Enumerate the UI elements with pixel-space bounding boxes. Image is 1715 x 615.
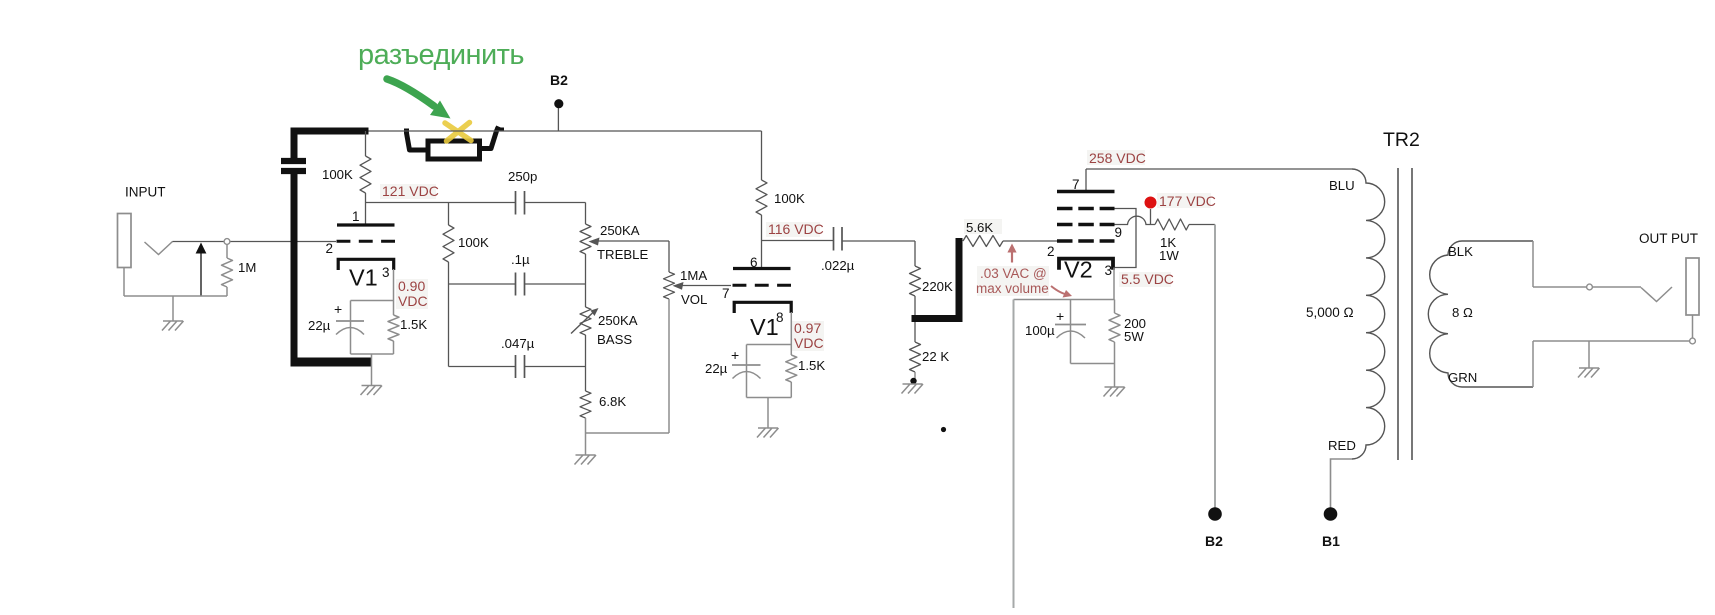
input jack J1 body bbox=[118, 214, 132, 268]
capacitor .047u bbox=[516, 355, 525, 378]
wire thick mod divider horizontal bbox=[912, 315, 963, 322]
wire V1b cathode lead bbox=[790, 312, 792, 345]
label 5.6K bbox=[964, 219, 1002, 234]
svg-text:250KA: 250KA bbox=[598, 313, 638, 328]
svg-text:BLK: BLK bbox=[1448, 244, 1473, 259]
node divider ground junction bbox=[910, 378, 916, 384]
svg-text:5W: 5W bbox=[1124, 329, 1144, 344]
wire volume bottom rail bbox=[668, 299, 670, 433]
wire .047u to rail bbox=[525, 366, 586, 368]
svg-text:GRN: GRN bbox=[1448, 370, 1477, 385]
svg-text:B1: B1 bbox=[1322, 533, 1340, 549]
svg-text:1MA: 1MA bbox=[680, 268, 707, 283]
svg-text:1.5K: 1.5K bbox=[798, 358, 825, 373]
wire input signal to V1 grid bbox=[173, 241, 337, 243]
svg-text:1.5K: 1.5K bbox=[400, 317, 427, 332]
capacitor 250p bbox=[516, 191, 525, 215]
svg-text:VDC: VDC bbox=[398, 293, 428, 309]
arrow treble wiper bbox=[589, 238, 600, 246]
wire treble wiper bbox=[597, 240, 669, 242]
wire ground stem V1b bbox=[767, 398, 769, 429]
svg-text:121 VDC: 121 VDC bbox=[382, 183, 439, 199]
output jack tip contact bbox=[1641, 287, 1672, 302]
svg-text:100K: 100K bbox=[458, 235, 489, 250]
wire V1a cathode lead bbox=[393, 269, 395, 301]
svg-text:22µ: 22µ bbox=[308, 318, 331, 333]
label 116 VDC bbox=[766, 222, 820, 237]
ground V2 cathode bbox=[1104, 387, 1126, 397]
capacitor thick mod top plate bbox=[281, 158, 306, 164]
svg-text:OUT PUT: OUT PUT bbox=[1639, 231, 1698, 246]
svg-text:B2: B2 bbox=[550, 72, 568, 88]
wire plate node to tone stack bbox=[366, 202, 516, 204]
node B2 terminal bottom bbox=[1208, 507, 1222, 521]
svg-text:5.5 VDC: 5.5 VDC bbox=[1121, 271, 1174, 287]
wire ground stem input bbox=[172, 296, 174, 321]
pentode V2 screen dashed bbox=[1057, 223, 1115, 227]
svg-text:250p: 250p bbox=[508, 169, 537, 184]
svg-text:V2: V2 bbox=[1064, 257, 1093, 283]
ground V1a cathode bbox=[361, 386, 383, 396]
wire tone bottom bus bbox=[586, 432, 670, 434]
wire thick mod vertical upper segment bbox=[291, 128, 298, 159]
wire bass to 6.8K rail bbox=[585, 335, 587, 391]
transformer core line left bbox=[1397, 168, 1399, 460]
svg-text:177 VDC: 177 VDC bbox=[1159, 193, 1216, 209]
svg-text:max volume: max volume bbox=[976, 281, 1049, 296]
capacitor .022u bbox=[834, 227, 843, 251]
wire B2 rail vertical bbox=[1214, 225, 1216, 508]
wire 1M resistor top lead bbox=[226, 244, 228, 258]
svg-text:+: + bbox=[334, 301, 342, 317]
wire 1M bottom lead bbox=[226, 287, 228, 296]
svg-text:3: 3 bbox=[382, 265, 390, 280]
wire thick mod vertical lower segment bbox=[291, 174, 298, 366]
annotation yellow X mark bbox=[445, 123, 471, 142]
annotation right lead nub bbox=[495, 128, 504, 132]
svg-text:V1: V1 bbox=[349, 265, 378, 291]
svg-text:0.90: 0.90 bbox=[398, 278, 425, 294]
transformer TR2 secondary winding bbox=[1428, 241, 1533, 387]
svg-text:2: 2 bbox=[326, 241, 334, 256]
wire V2 cathode lead bbox=[1113, 268, 1115, 300]
ground output bbox=[1578, 368, 1600, 378]
svg-text:B2: B2 bbox=[1205, 533, 1223, 549]
svg-text:.047µ: .047µ bbox=[501, 336, 535, 351]
svg-text:5,000 Ω: 5,000 Ω bbox=[1306, 305, 1354, 320]
wire ground stem V2 bbox=[1114, 364, 1116, 388]
svg-text:1W: 1W bbox=[1159, 248, 1179, 263]
pentode V2 suppressor dashed bbox=[1057, 207, 1115, 211]
svg-text:220K: 220K bbox=[922, 279, 953, 294]
svg-text:+: + bbox=[731, 347, 739, 363]
wire BLK secondary riser bbox=[1532, 241, 1534, 287]
component lifted disconnected resistor body bbox=[428, 141, 480, 159]
resistor 1.5K V1a bbox=[388, 315, 399, 341]
capacitor 22u V1a curved plate bbox=[336, 328, 364, 335]
wire B2 stem bbox=[557, 108, 559, 131]
wire ground stem output bbox=[1588, 341, 1590, 368]
svg-text:8 Ω: 8 Ω bbox=[1452, 305, 1473, 320]
arrow marker at input wire bbox=[200, 253, 202, 296]
svg-text:5.6K: 5.6K bbox=[966, 220, 993, 235]
wire cathode bottom bus V1a bbox=[351, 353, 394, 355]
wire 6.8K bottom lead bbox=[585, 418, 587, 433]
wire jack sleeve lead bbox=[123, 268, 125, 297]
capacitor 100u plate bbox=[1055, 324, 1086, 326]
wire 100u lead bbox=[1070, 300, 1072, 364]
svg-text:22 K: 22 K bbox=[922, 349, 949, 364]
resistor 100K V1b plate bbox=[756, 180, 767, 215]
resistor 1K screen bbox=[1155, 219, 1189, 230]
wire ground stem tone bbox=[585, 433, 587, 455]
svg-text:250KA: 250KA bbox=[600, 223, 640, 238]
pentode V2 plate bbox=[1057, 190, 1115, 194]
label 121 VDC bbox=[380, 184, 436, 199]
wire 5.6K to V2 grid bbox=[1003, 240, 1057, 242]
svg-text:разъединить: разъединить bbox=[358, 39, 524, 71]
svg-text:22µ: 22µ bbox=[705, 361, 728, 376]
wire 1.5K leads V1b bbox=[790, 345, 792, 398]
node output jack tip junction bbox=[1587, 284, 1593, 290]
svg-text:1M: 1M bbox=[238, 260, 256, 275]
label 0.97 VDC bbox=[792, 321, 824, 351]
svg-text:RED: RED bbox=[1328, 438, 1356, 453]
wire 22K bottom lead bbox=[914, 372, 916, 382]
wire 1K to B2 rail bbox=[1189, 224, 1215, 226]
node red measurement dot 177VDC bbox=[1145, 197, 1157, 209]
pentode V2 grid dashed bbox=[1057, 239, 1115, 243]
wire thick mod bottom horizontal bbox=[291, 358, 373, 367]
svg-text:100µ: 100µ bbox=[1025, 323, 1055, 338]
wire 200 bottom lead bbox=[1114, 342, 1116, 364]
ground tone stack bbox=[575, 455, 597, 465]
wire treble wiper down to volume bbox=[668, 241, 670, 272]
label 177 VDC bbox=[1157, 193, 1211, 208]
node output sleeve junction bbox=[1690, 338, 1696, 344]
resistor 5.6K bbox=[963, 236, 1003, 247]
svg-text:9: 9 bbox=[1115, 225, 1123, 240]
node B2 terminal top bbox=[554, 99, 563, 108]
wire 1.5K leads V1a bbox=[393, 301, 395, 355]
svg-text:TREBLE: TREBLE bbox=[597, 247, 649, 262]
svg-text:INPUT: INPUT bbox=[125, 185, 166, 200]
svg-text:.022µ: .022µ bbox=[821, 258, 855, 273]
capacitor 100u curved plate bbox=[1057, 331, 1086, 338]
potentiometer 1MA volume bbox=[664, 272, 675, 299]
wire 100K V1b top lead bbox=[761, 131, 763, 180]
capacitor 22u V1b curved plate bbox=[733, 372, 761, 379]
label 0.90 VDC bbox=[396, 279, 428, 309]
arrow bass wiper diagonal bbox=[571, 312, 594, 334]
resistor 100K tone bbox=[443, 225, 454, 262]
ground divider bbox=[902, 384, 924, 394]
transformer core line right bbox=[1411, 168, 1413, 460]
capacitor .1u bbox=[516, 273, 525, 296]
triode V1a grid dashed bbox=[337, 240, 396, 243]
svg-text:V1: V1 bbox=[750, 314, 779, 340]
capacitor thick mod bottom plate bbox=[281, 168, 306, 174]
potentiometer 250KA bass bbox=[580, 307, 591, 335]
svg-text:VOL: VOL bbox=[681, 292, 707, 307]
wire 22u lead V1a bbox=[350, 301, 352, 355]
svg-text:8: 8 bbox=[776, 310, 784, 325]
resistor 220K bbox=[910, 266, 921, 296]
svg-text:BASS: BASS bbox=[597, 332, 632, 347]
wire V2 cathode node top bbox=[1014, 299, 1115, 301]
annotation pink arrow curved bbox=[1051, 286, 1068, 295]
svg-text:TR2: TR2 bbox=[1383, 129, 1420, 151]
output jack J2 body bbox=[1686, 258, 1699, 315]
resistor 1.5K V1b bbox=[786, 355, 797, 382]
wire treble to bass rail bbox=[585, 254, 587, 307]
resistor 22K bbox=[910, 342, 921, 372]
wire to output jack contact bbox=[1593, 286, 1642, 288]
wire 100K bottom to plate bbox=[365, 193, 367, 224]
wire B+ top rail bbox=[369, 130, 762, 132]
wire lifted component right lead bbox=[479, 127, 499, 149]
wire thick mod divider vertical bbox=[956, 238, 963, 322]
node stray dot bbox=[941, 427, 946, 432]
annotation green arrow bbox=[387, 79, 434, 106]
svg-text:3: 3 bbox=[1105, 263, 1113, 278]
svg-text:6.8K: 6.8K bbox=[599, 394, 626, 409]
wire screen hop to screen node bbox=[1115, 216, 1156, 224]
resistor 200 cathode bbox=[1109, 313, 1120, 342]
wire RED lead to B1 bbox=[1331, 459, 1353, 508]
wire cathode bottom bus V1b bbox=[747, 397, 792, 399]
wire 100K V1b bottom lead bbox=[761, 215, 763, 241]
label 5.5 VDC bbox=[1119, 272, 1171, 287]
wire V1b cathode node top bbox=[747, 344, 792, 346]
wire V2 cathode bottom bus bbox=[1071, 363, 1115, 365]
wire output bottom rail bbox=[1533, 340, 1690, 342]
wire V2 plate stem bbox=[1085, 169, 1087, 190]
wire BLK to output jack bbox=[1533, 286, 1587, 288]
wire V1b plate node to coupling cap bbox=[762, 240, 834, 242]
wire cathode node top bbox=[351, 300, 394, 302]
wire long feedback line down bbox=[1013, 300, 1015, 609]
wire coupling cap to divider bbox=[842, 240, 915, 242]
wire red dot stem bbox=[1150, 209, 1152, 225]
svg-text:VDC: VDC bbox=[794, 335, 824, 351]
svg-text:.03 VAC @: .03 VAC @ bbox=[980, 266, 1047, 281]
wire tone stack left rail bbox=[448, 203, 450, 226]
wire V2 plate to transformer bbox=[1086, 168, 1352, 170]
node input jack tip junction bbox=[224, 239, 230, 245]
triode V1b cathode bracket bbox=[734, 302, 791, 313]
svg-text:100K: 100K bbox=[322, 167, 353, 182]
svg-text:100K: 100K bbox=[774, 191, 805, 206]
svg-text:7: 7 bbox=[722, 286, 730, 301]
resistor 1M bbox=[222, 258, 233, 287]
wire 100K plate resistor top lead bbox=[365, 131, 367, 156]
triode V1b plate bbox=[733, 267, 791, 270]
svg-text:+: + bbox=[1056, 308, 1064, 324]
transformer TR2 primary winding bbox=[1352, 169, 1385, 459]
wire ground stem V1a cathode bbox=[371, 354, 373, 386]
ground input bbox=[162, 321, 184, 331]
svg-text:.1µ: .1µ bbox=[511, 252, 530, 267]
wire input ground bus bbox=[124, 295, 227, 297]
capacitor 22u V1a plate bbox=[336, 320, 364, 322]
wire tone left rail lower bbox=[448, 262, 450, 367]
resistor 100K V1a plate bbox=[360, 156, 371, 193]
wire output jack sleeve lead bbox=[1692, 315, 1694, 338]
wire suppressor to cathode bbox=[1114, 209, 1136, 268]
wire lifted component left lead bbox=[407, 129, 429, 151]
svg-text:116 VDC: 116 VDC bbox=[768, 221, 824, 237]
wire 22u lead V1b bbox=[746, 345, 748, 398]
capacitor .047u wire left bbox=[449, 366, 516, 368]
wire 220K to 22K bbox=[914, 296, 916, 342]
wire 200 top lead bbox=[1114, 300, 1116, 314]
wire 250p to treble bbox=[525, 202, 586, 204]
svg-text:1: 1 bbox=[352, 209, 360, 224]
label 258 VDC bbox=[1087, 150, 1145, 165]
input jack tip contact bbox=[145, 242, 173, 255]
potentiometer 250KA treble bbox=[580, 224, 591, 254]
op-amp none - triode V1a plate bbox=[337, 223, 395, 226]
wire .1u to rail bbox=[525, 283, 586, 285]
annotation pink arrow up bbox=[1011, 249, 1013, 263]
wire GRN secondary riser bbox=[1532, 341, 1534, 387]
wire thick mod top horizontal bbox=[291, 128, 369, 135]
triode V1b grid dashed bbox=[733, 284, 792, 287]
arrow volume wiper bbox=[673, 282, 684, 290]
wire treble top lead bbox=[585, 203, 587, 225]
svg-text:2: 2 bbox=[1047, 244, 1055, 259]
wire V1b plate stem bbox=[761, 241, 763, 269]
node B1 terminal bottom bbox=[1324, 507, 1338, 521]
resistor 6.8K bbox=[580, 391, 591, 418]
capacitor 22u V1b plate bbox=[732, 364, 761, 366]
wire volume wiper to V1b grid bbox=[681, 285, 731, 287]
svg-text:258 VDC: 258 VDC bbox=[1089, 150, 1146, 166]
capacitor .1u wire left bbox=[449, 283, 516, 285]
label .03 VAC annotation bbox=[977, 266, 1049, 296]
pentode V2 cathode bracket bbox=[1059, 259, 1113, 270]
svg-text:0.97: 0.97 bbox=[794, 320, 821, 336]
triode V1a cathode bracket bbox=[338, 259, 394, 270]
ground V1b cathode bbox=[757, 428, 779, 438]
svg-text:BLU: BLU bbox=[1329, 178, 1355, 193]
wire 220K top lead bbox=[914, 241, 916, 266]
